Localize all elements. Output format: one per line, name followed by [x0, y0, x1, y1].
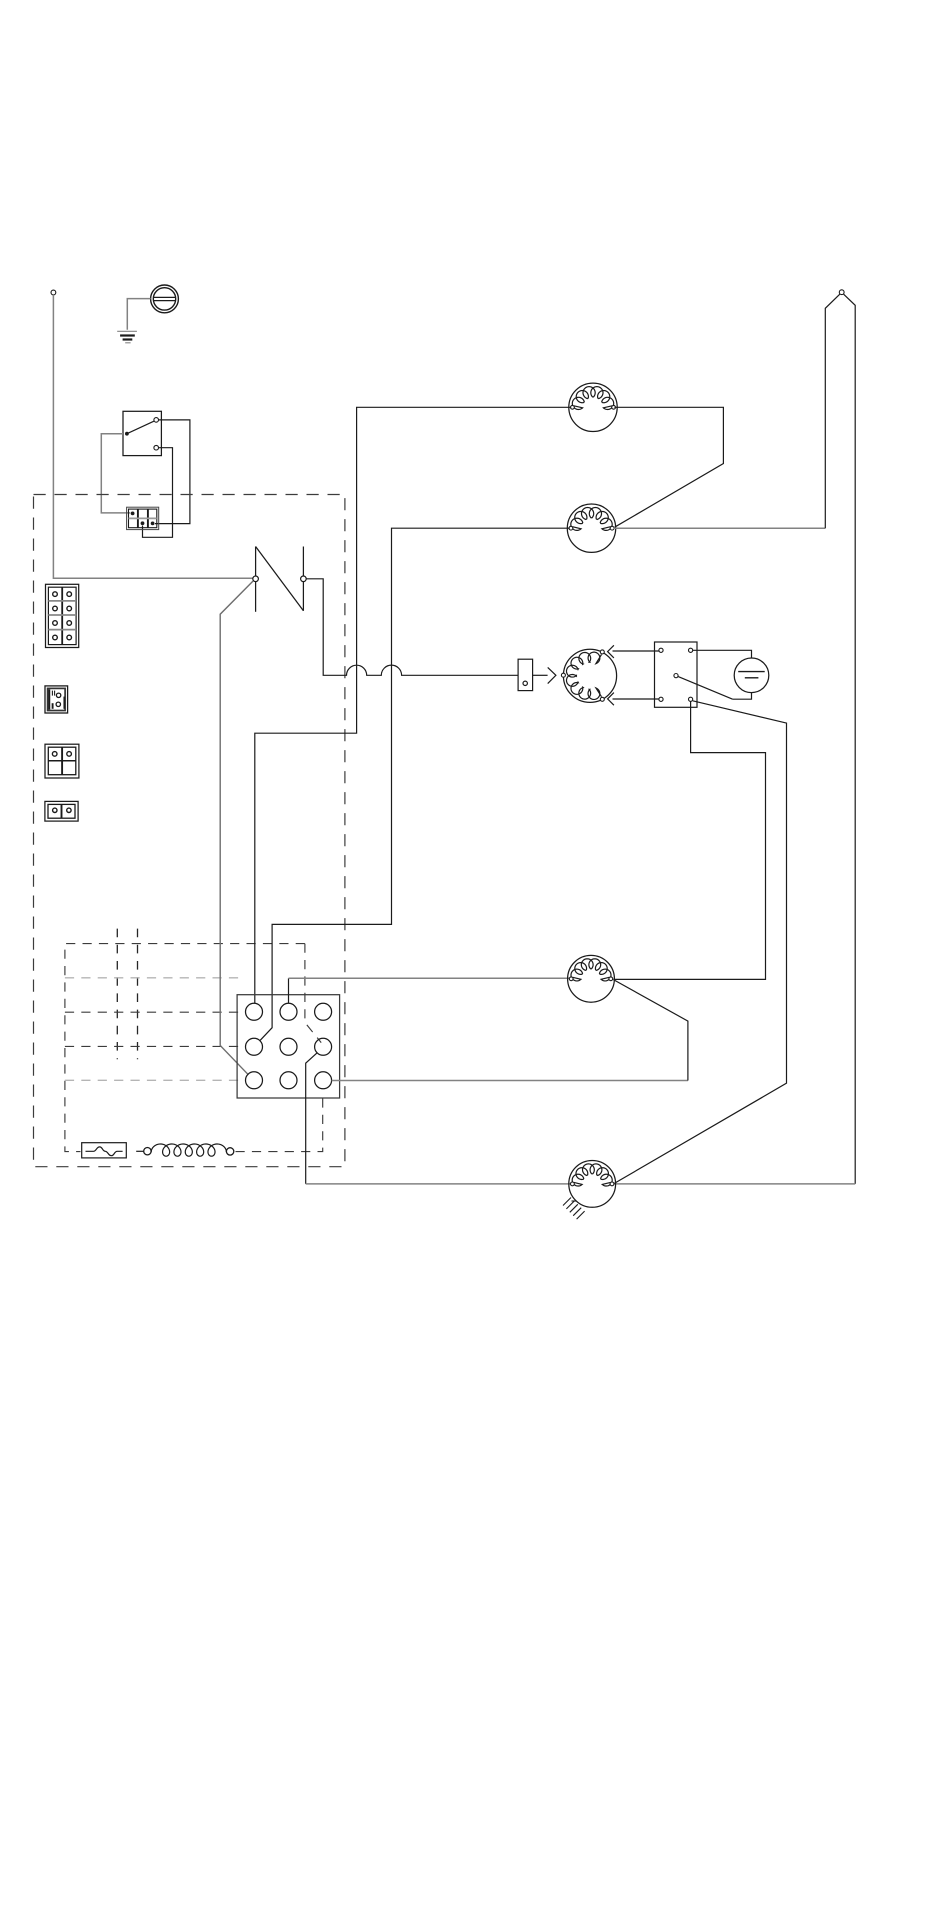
dashed bus line 1 (light) [65, 977, 243, 979]
motor M3 (wiper motor) [561, 649, 616, 702]
dashed enclosure (inner sub box) [65, 944, 323, 1152]
arrow relay K1 to motor M3 lower terminal [608, 693, 659, 706]
wire node A to switch S2 left blade [53, 295, 252, 578]
arrow F1 to motor M3 [533, 667, 556, 683]
connector J5 (2-way) [45, 801, 78, 821]
battery B1 [734, 658, 769, 693]
wire fuse F2 to inductor L1 [136, 1150, 143, 1152]
dashed bus line 2 [65, 1011, 245, 1013]
connector J2 (8-way) [46, 584, 79, 647]
wire S2 left terminal to terminal block TB1 pin 7 [220, 581, 253, 1075]
dashed bus line 3 [65, 1045, 245, 1047]
wire battery B1 top to relay K1 [693, 650, 752, 658]
node B (supply node) [839, 290, 844, 295]
motor M1 (window motor) [569, 383, 617, 431]
node A (battery feed terminal) [51, 290, 56, 295]
fuse F2 [82, 1143, 127, 1158]
motor M5 (fan motor, grounded) [569, 1161, 616, 1208]
motor M2 (window motor) [567, 504, 615, 552]
connector J3 (socket) [45, 686, 68, 713]
wire S1 throw 2 to connector J1 pin 5 [143, 448, 173, 538]
flasher F1 [518, 659, 533, 690]
terminal block TB1 (3x3) [237, 995, 340, 1098]
motor M4 (fan motor) [568, 955, 615, 1002]
wire relay K1 output to motor M4 right [613, 701, 765, 979]
wire TB1 pin 2 to motor M4 left [289, 978, 570, 1003]
ground (chassis) [117, 331, 137, 343]
wire motor M1 right to motor M2 right [614, 407, 723, 527]
wire TB1 pin 8 to motor M5 left [306, 1053, 571, 1184]
wire node B right leg down to motor M5 [614, 294, 855, 1184]
screw terminal E1 [151, 285, 179, 313]
dashed enclosure (outer control box) [34, 495, 345, 1167]
wire motor M2 left to terminal block TB1 pin 4 [260, 528, 570, 1040]
wire S2 right terminal to flasher F1 (with hop-overs) [306, 579, 518, 676]
dashed bus line 4 (light) [65, 1079, 243, 1081]
connector J1 (6-way) [127, 507, 159, 529]
wire battery B1 bottom [733, 693, 752, 700]
wire screw terminal E1 to ground [127, 299, 150, 330]
wire motor M1 left to terminal block TB1 pin 1 [255, 407, 571, 1003]
wire S1 pole to connector J1 pin 1 [101, 434, 130, 513]
switch S2 (knife switch) [253, 547, 306, 612]
dashed link lines (harness columns) [117, 929, 137, 1060]
relay K1 (wiper control) [655, 642, 698, 707]
connector J4 (4-way) [45, 744, 79, 778]
wire node B riser left leg [825, 294, 840, 528]
wire relay K1 armature to battery negative [678, 676, 733, 699]
inductor L1 (choke coil) [144, 1144, 234, 1156]
switch S1 (toggle switch) [123, 411, 161, 455]
ground (motor M5 chassis) [563, 1198, 585, 1220]
wire relay K1 output to motor M5 right (long diagonal) [614, 701, 786, 1184]
wire TB1 pin 9 to motor M4 right branch [332, 980, 688, 1081]
wire motor M2 right to node B (gray feed) [613, 527, 825, 529]
arrow relay K1 to motor M3 upper terminal [608, 645, 659, 658]
wire S1 throw 1 to connector J1 pin 6 [155, 420, 190, 524]
